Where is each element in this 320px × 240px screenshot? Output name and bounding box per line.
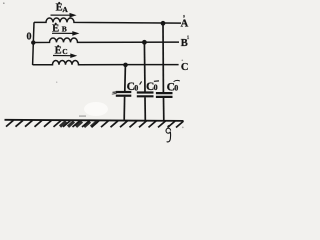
wire drop from B to capacitor C0'' (143, 42, 146, 92)
svg-text:0: 0 (154, 83, 158, 92)
wire phase C with winding (33, 61, 179, 65)
capacitor C0''' plates (156, 92, 173, 94)
wire phase A with winding (34, 18, 181, 23)
capacitor C0'' lower lead (144, 97, 146, 120)
svg-text:E: E (55, 46, 62, 57)
junction node on B (142, 40, 147, 45)
ink artifact left of C0' (112, 92, 118, 95)
ground line (5, 120, 184, 121)
figure mark 9 below ground (166, 128, 171, 142)
svg-text:C: C (62, 47, 67, 56)
svg-text:B: B (62, 25, 67, 34)
arrow EA (51, 14, 72, 16)
junction node on A (161, 21, 166, 26)
wire drop from C to capacitor C0' (124, 65, 127, 91)
capacitor C0' lower lead (123, 97, 125, 120)
arrow EB (52, 32, 74, 34)
svg-text:s: s (183, 14, 185, 19)
wire phase B with winding (33, 38, 179, 42)
svg-text:A: A (62, 5, 68, 14)
svg-text:E: E (52, 23, 59, 34)
capacitor C0'' plates (137, 91, 154, 93)
junction node on C (123, 63, 128, 68)
capacitor C0' plates (116, 91, 132, 93)
svg-text:A: A (181, 19, 189, 30)
ground hatching (6, 120, 184, 127)
arrow EC (53, 55, 72, 57)
svg-text:C: C (181, 62, 189, 73)
svg-text:0: 0 (134, 83, 138, 92)
paper background (0, 0, 190, 144)
ink smudge on hatching (60, 121, 97, 127)
paper specks (3, 2, 5, 4)
svg-text:0: 0 (27, 32, 32, 43)
wire drop from A to capacitor C0''' (162, 23, 164, 92)
node 0 bus (left vertical wire) (33, 22, 34, 65)
junction node 0 on bus (31, 40, 35, 44)
capacitor C0''' lower lead (163, 98, 165, 121)
svg-text:0: 0 (174, 84, 178, 93)
